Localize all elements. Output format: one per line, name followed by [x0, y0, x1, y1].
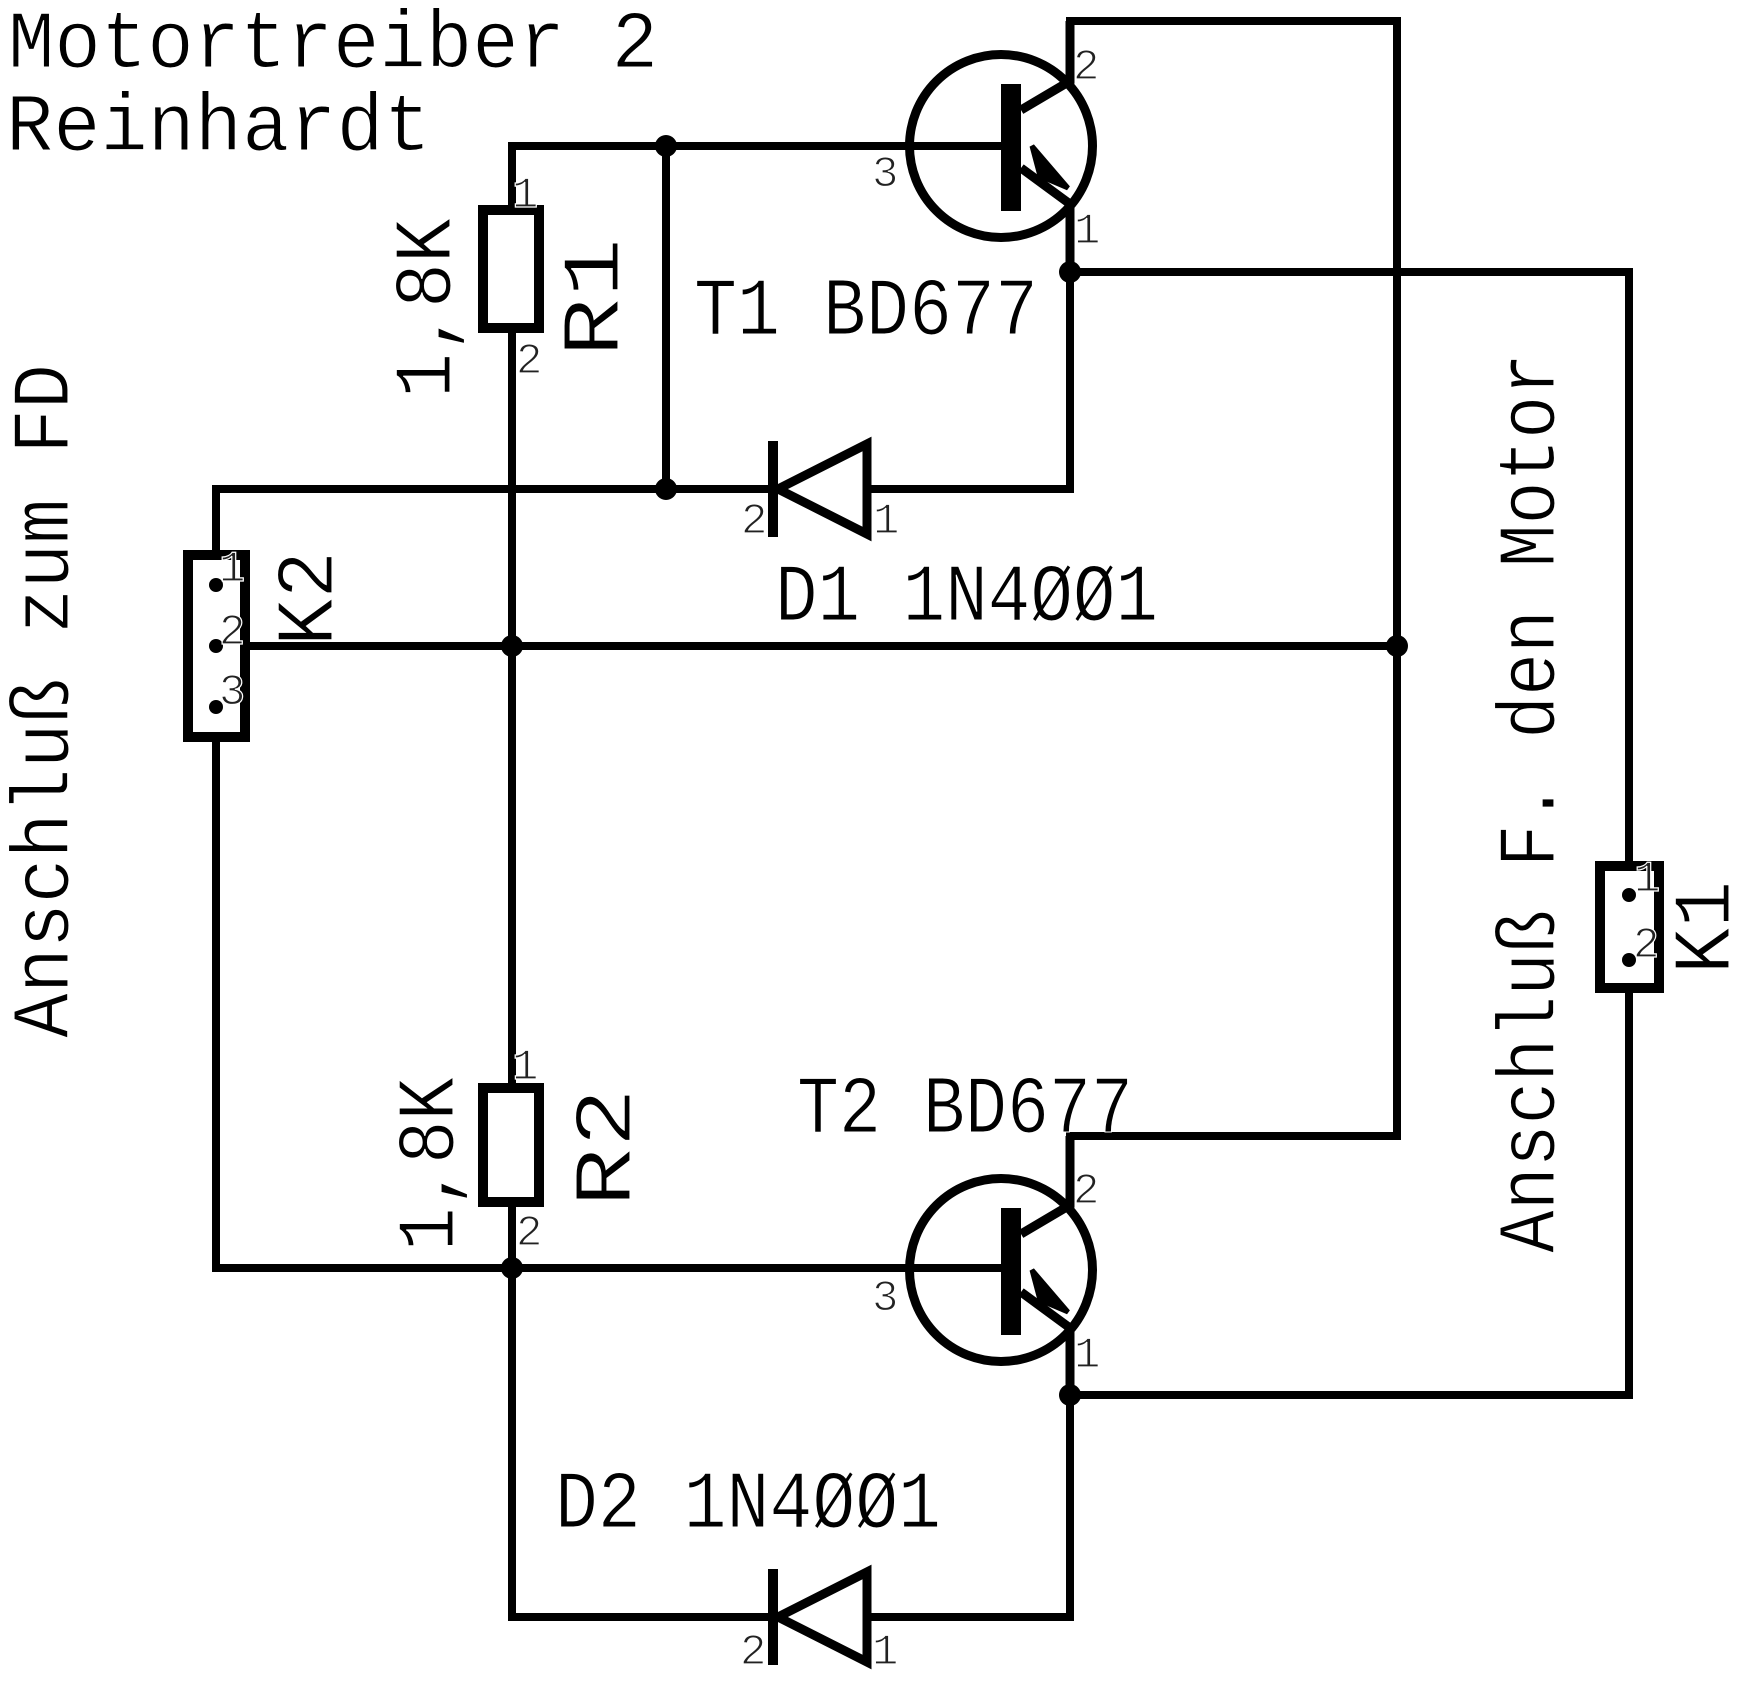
- K1 pin 1 dot: [1622, 888, 1636, 902]
- svg-text:3: 3: [872, 150, 898, 200]
- wire K1 pin2 to T2 emitter node: [1070, 965, 1629, 1395]
- resistor R2: [483, 1088, 539, 1202]
- svg-text:R1: R1: [550, 238, 643, 357]
- wire top rail T1 collector to T2 collector: [1070, 21, 1397, 1136]
- wire K2 pin3 to T2 base: [216, 707, 1001, 1268]
- svg-text:2: 2: [1073, 43, 1099, 93]
- diode D2: [773, 1569, 867, 1665]
- connector K1: [1600, 866, 1659, 988]
- wire R1 pin2 to R2 pin1: [508, 333, 516, 1083]
- K1 pin 2 dot: [1622, 953, 1636, 967]
- svg-text:1: 1: [873, 497, 899, 547]
- wire R1 pin1 to T1 base: [512, 146, 1001, 205]
- svg-text:2: 2: [1633, 921, 1659, 971]
- wire K2 pin2 to right rail: [216, 642, 1397, 650]
- svg-text:Anschluß F. den Motor: Anschluß F. den Motor: [1486, 353, 1579, 1253]
- svg-text:1,8K: 1,8K: [385, 1076, 478, 1251]
- wire R2 pin2 to D2 cathode: [512, 1207, 770, 1617]
- transistor T1: [910, 21, 1093, 272]
- connector K2: [188, 555, 245, 737]
- svg-text:2: 2: [740, 1628, 766, 1678]
- K2 pin 1 dot: [209, 578, 223, 592]
- svg-text:Reinhardt: Reinhardt: [6, 82, 431, 175]
- svg-text:R2: R2: [562, 1088, 655, 1207]
- diode D1: [773, 441, 867, 537]
- svg-text:2: 2: [1073, 1167, 1099, 1217]
- svg-text:2: 2: [516, 337, 542, 387]
- svg-text:3: 3: [872, 1274, 898, 1324]
- transistor T2: [910, 1136, 1093, 1395]
- svg-text:1: 1: [1074, 207, 1100, 257]
- wire junction to D1 net: [662, 146, 670, 489]
- wire K2 pin1 to D1 cathode: [216, 489, 770, 585]
- wire D2 anode to T2 emitter node: [866, 1395, 1070, 1617]
- svg-text:1: 1: [1634, 855, 1660, 905]
- svg-text:T1 BD677: T1 BD677: [694, 266, 1038, 359]
- K2 pin 3 dot: [209, 700, 223, 714]
- svg-text:D2 1N4ØØ1: D2 1N4ØØ1: [555, 1459, 941, 1552]
- K2 pin 2 dot: [209, 639, 223, 653]
- svg-text:1: 1: [512, 171, 538, 221]
- svg-text:T2 BD677: T2 BD677: [797, 1064, 1133, 1157]
- svg-text:2: 2: [219, 608, 245, 658]
- svg-text:D1 1N4ØØ1: D1 1N4ØØ1: [775, 552, 1158, 645]
- svg-text:Motortreiber 2: Motortreiber 2: [8, 0, 658, 92]
- svg-text:1,8K: 1,8K: [382, 217, 475, 398]
- svg-text:K2: K2: [264, 551, 357, 646]
- junction node dots: [655, 135, 677, 157]
- svg-text:2: 2: [741, 497, 767, 547]
- svg-text:K1: K1: [1661, 881, 1746, 974]
- svg-text:Anschluß zum FD: Anschluß zum FD: [0, 364, 93, 1038]
- wire D1 anode to T1 emitter node: [866, 272, 1070, 489]
- svg-text:1: 1: [512, 1043, 538, 1093]
- wire T1 emitter node to K1 pin1: [1070, 272, 1629, 890]
- svg-text:1: 1: [219, 545, 245, 595]
- svg-text:3: 3: [219, 668, 245, 718]
- svg-text:1: 1: [872, 1628, 898, 1678]
- svg-text:2: 2: [516, 1209, 542, 1259]
- svg-text:1: 1: [1074, 1331, 1100, 1381]
- resistor R1: [483, 210, 539, 328]
